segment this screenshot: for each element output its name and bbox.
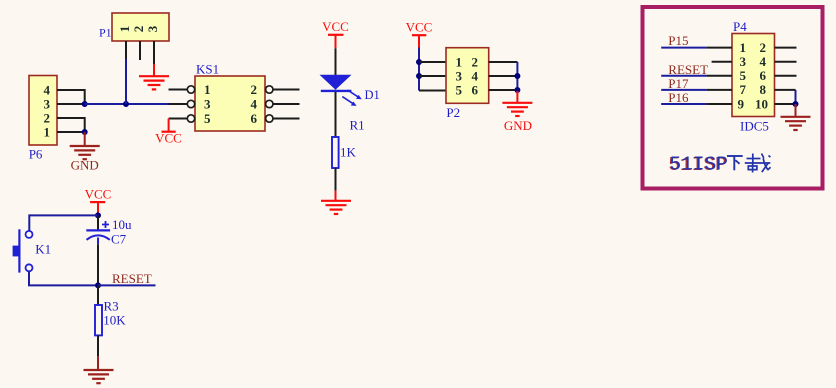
svg-text:KS1: KS1	[196, 62, 219, 77]
wire K1 bottom to rail	[29, 271, 98, 285]
wire KS1 pin6 stub	[273, 118, 299, 120]
svg-text:GND: GND	[71, 158, 99, 173]
wire C7 pin top	[97, 215, 99, 229]
wire P6 pin4	[57, 90, 85, 104]
power VCC above D1	[322, 19, 349, 48]
svg-text:2: 2	[472, 54, 479, 69]
wire P6 pin3	[57, 103, 85, 105]
svg-text:10u: 10u	[112, 217, 132, 232]
svg-text:2: 2	[44, 110, 51, 125]
pin circle KS1 pin2	[266, 86, 273, 93]
wire VCC to D1 anode	[335, 48, 337, 75]
svg-text:VCC: VCC	[322, 19, 349, 34]
svg-text:1: 1	[44, 124, 51, 139]
svg-text:IDC5: IDC5	[740, 119, 769, 134]
hanzi zai	[745, 154, 771, 173]
wire P4 pin7 stub	[707, 89, 732, 91]
svg-text:2: 2	[251, 82, 258, 97]
svg-text:RESET: RESET	[668, 62, 708, 77]
ground at P4	[781, 104, 811, 130]
switch K1	[13, 229, 33, 272]
svg-text:P2: P2	[446, 105, 460, 120]
wire KS1 pin2 stub	[273, 89, 299, 91]
svg-text:GND: GND	[504, 118, 532, 133]
connector P1	[112, 13, 169, 41]
wire P1 pin1 net down to node	[125, 59, 127, 104]
wire P4 pin5 stub	[707, 75, 732, 77]
wire KS1 pin5 stub	[169, 118, 188, 120]
wire P2 right vertical net	[516, 62, 518, 91]
wire P4 pin10	[775, 103, 796, 105]
wire P4 pin1 stub	[707, 47, 732, 49]
svg-text:VCC: VCC	[406, 19, 433, 34]
wire P6 pin1	[57, 131, 85, 133]
wire P2 pin5	[419, 90, 446, 92]
wire P2 pin4	[489, 75, 518, 77]
svg-text:8: 8	[760, 82, 767, 97]
svg-text:1: 1	[456, 54, 463, 69]
wire top rail K1 to C7	[29, 215, 98, 231]
resistor R1	[332, 137, 339, 168]
svg-text:10: 10	[755, 96, 768, 111]
node junction P1 pin1	[123, 101, 129, 107]
wire KS1 pin1 stub	[169, 89, 188, 91]
ground symbol at P1 pin3	[139, 64, 169, 89]
svg-text:3: 3	[740, 54, 747, 69]
svg-text:6: 6	[760, 68, 767, 83]
wire net P6 to KS1 pin3	[85, 103, 169, 105]
wire RESET net	[98, 284, 156, 286]
wire KS1 pin4 stub	[273, 103, 299, 105]
svg-text:RESET: RESET	[112, 271, 152, 286]
LED D1	[320, 75, 362, 106]
svg-text:P15: P15	[668, 33, 688, 48]
svg-text:P6: P6	[29, 147, 43, 162]
capacitor C7	[86, 221, 110, 244]
svg-text:5: 5	[456, 82, 463, 97]
node junction P2 pin3	[416, 73, 422, 79]
wire P4 pin8	[775, 89, 796, 91]
svg-text:D1: D1	[365, 88, 380, 102]
pin circle KS1 pin3	[187, 100, 194, 107]
power VCC at C7	[85, 186, 112, 215]
svg-text:2: 2	[131, 26, 146, 33]
node junction RESET	[95, 282, 101, 288]
svg-text:1K: 1K	[340, 144, 357, 159]
svg-text:P4: P4	[733, 19, 747, 34]
wire KS1 pin3 stub	[169, 103, 188, 105]
svg-text:1: 1	[204, 82, 211, 97]
wire RESET to R3	[97, 285, 99, 305]
wire P6 pin2	[57, 118, 85, 132]
wire P2 pin1	[419, 61, 446, 63]
node junction P6 net	[82, 101, 88, 107]
svg-text:VCC: VCC	[155, 131, 182, 146]
svg-text:K1: K1	[35, 242, 51, 257]
wire P2 pin3	[419, 75, 446, 77]
pin circle KS1 pin1	[187, 86, 194, 93]
connector P6	[29, 76, 57, 146]
svg-text:4: 4	[251, 96, 258, 111]
ground GND under P6	[70, 132, 100, 159]
wire P4 pin6 stub	[775, 75, 797, 77]
wire R1 to ground	[335, 168, 337, 191]
wire P4 pin2 stub	[775, 47, 797, 49]
svg-text:P16: P16	[668, 90, 689, 105]
resistor R3	[95, 305, 102, 335]
wire P1 pin2 stub	[139, 41, 141, 60]
svg-text:10K: 10K	[103, 312, 126, 327]
svg-text:51ISP: 51ISP	[670, 153, 729, 175]
wire net P17	[661, 89, 706, 91]
wire P2 pin6	[489, 89, 518, 91]
node junction P4 gnd	[793, 101, 799, 107]
svg-text:1: 1	[740, 40, 747, 55]
wire P4 pin8 vertical net	[795, 90, 797, 104]
label 51ISP download	[668, 153, 728, 176]
wire P1 pin3 stub	[153, 41, 155, 64]
node junction P6 gnd	[82, 129, 88, 135]
ground below R1	[321, 191, 351, 214]
wire P4 pin3 stub	[712, 61, 732, 63]
node junction VCC C7	[95, 212, 101, 218]
svg-text:VCC: VCC	[85, 186, 112, 201]
svg-text:P1: P1	[99, 26, 112, 40]
ground below R3	[84, 356, 114, 383]
svg-text:3: 3	[204, 96, 211, 111]
svg-text:5: 5	[204, 111, 211, 126]
wire P1 pin1 stub	[125, 41, 127, 59]
wire P2 left vertical net	[418, 48, 420, 91]
svg-text:4: 4	[472, 68, 479, 83]
svg-text:5: 5	[740, 68, 747, 83]
wire net P15	[661, 47, 706, 49]
ground at P2	[502, 91, 532, 116]
panel border 51ISP	[643, 7, 823, 189]
node junction P2 pin6	[514, 87, 520, 93]
power VCC below KS1 pin5	[162, 119, 176, 132]
wire R3 to ground	[97, 335, 99, 356]
hanzi xia	[727, 156, 743, 170]
wire P4 pin4 stub	[775, 61, 797, 63]
pin circle KS1 pin4	[266, 100, 273, 107]
svg-text:3: 3	[456, 68, 463, 83]
svg-text:4: 4	[44, 82, 51, 97]
svg-text:4: 4	[760, 54, 767, 69]
connector P4	[732, 34, 775, 117]
svg-text:3: 3	[145, 25, 160, 32]
node junction P2 pin4	[514, 73, 520, 79]
power VCC at P2	[406, 19, 433, 47]
wire P2 pin2	[489, 61, 518, 63]
svg-text:C7: C7	[111, 231, 127, 246]
svg-text:3: 3	[44, 96, 51, 111]
svg-text:6: 6	[251, 111, 258, 126]
svg-text:R1: R1	[350, 118, 365, 133]
wire net P16	[661, 103, 706, 105]
pin circle KS1 pin6	[266, 115, 273, 122]
svg-text:R3: R3	[104, 299, 119, 314]
node junction P2 pin1	[416, 59, 422, 65]
pin circle KS1 pin5	[187, 115, 194, 122]
svg-text:P17: P17	[668, 76, 689, 91]
svg-text:7: 7	[740, 82, 747, 97]
svg-text:6: 6	[472, 82, 479, 97]
component KS1	[195, 76, 265, 131]
svg-text:1: 1	[117, 26, 132, 33]
svg-text:9: 9	[738, 96, 745, 111]
wire net RESET P4	[661, 75, 706, 77]
wire C7 bottom	[97, 244, 99, 285]
connector P2	[446, 48, 489, 104]
wire D1 cathode to R1	[335, 92, 337, 137]
wire P4 pin9 stub	[707, 103, 732, 105]
svg-text:2: 2	[760, 40, 767, 55]
